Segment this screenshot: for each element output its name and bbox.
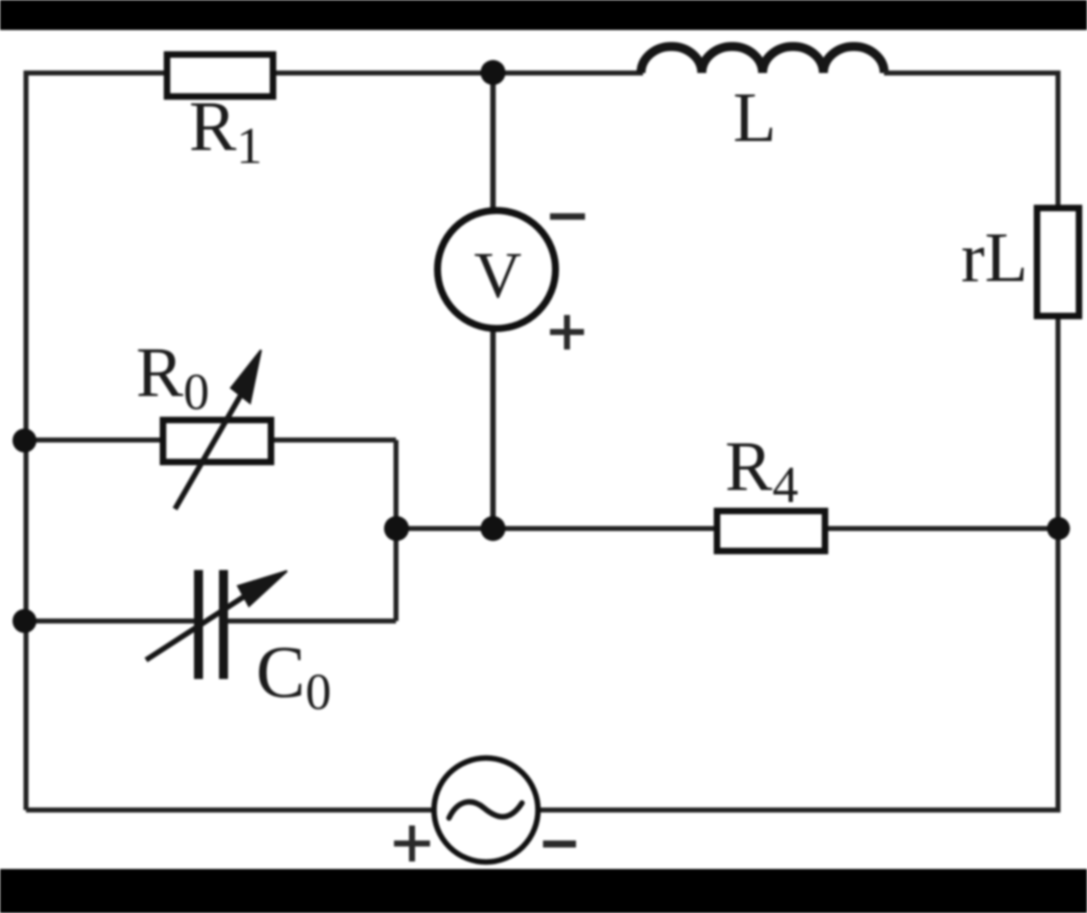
wire: R0 branch vertical drop bbox=[394, 440, 399, 529]
variable resistor R0 bbox=[163, 350, 271, 509]
wire: right rail bbox=[1056, 71, 1061, 811]
wire: R0 branch horizontal bbox=[26, 438, 396, 443]
AC source minus sign bbox=[543, 841, 576, 848]
svg-text:L: L bbox=[733, 79, 776, 157]
wire: middle rail through R4 bbox=[396, 526, 1058, 531]
AC source bbox=[434, 758, 538, 862]
svg-text:V: V bbox=[474, 239, 522, 312]
variable capacitor C0 bbox=[146, 570, 287, 679]
voltmeter polarity minus bbox=[550, 213, 585, 220]
node: voltmeter junction bbox=[481, 516, 506, 541]
inductor L bbox=[641, 47, 884, 73]
wire: bottom rail bbox=[26, 808, 1061, 813]
wire: top rail right segment bbox=[884, 71, 1058, 76]
resistor R1 bbox=[167, 55, 273, 97]
node: middle junction (R0/C0 merge) bbox=[384, 516, 409, 541]
voltmeter polarity plus bbox=[550, 315, 584, 350]
node: top junction bbox=[481, 60, 506, 85]
wire: left rail bbox=[24, 73, 29, 810]
wire: C0 branch left segment bbox=[26, 619, 199, 624]
svg-text:rL: rL bbox=[961, 219, 1028, 297]
wire: C0 branch right segment bbox=[223, 619, 396, 624]
wire: voltmeter branch bbox=[490, 73, 496, 529]
wire: top rail left segment bbox=[24, 71, 644, 76]
AC source plus sign bbox=[394, 826, 430, 862]
resistor R4 bbox=[717, 511, 825, 551]
resistor rL bbox=[1037, 208, 1079, 316]
voltmeter V bbox=[438, 211, 556, 329]
wire: C0 branch vertical rise bbox=[394, 529, 399, 622]
node: left C0 junction bbox=[13, 609, 37, 633]
node: right junction bbox=[1047, 517, 1070, 540]
node: left R0 junction bbox=[13, 429, 37, 453]
